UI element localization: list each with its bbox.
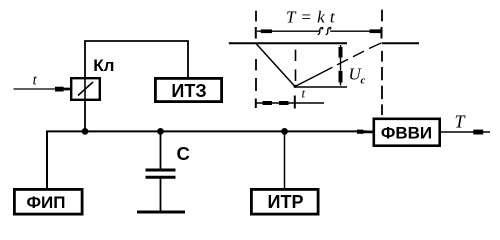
svg-text:Кл: Кл: [93, 56, 114, 75]
svg-text:ИТЗ: ИТЗ: [171, 81, 206, 101]
svg-text:c: c: [361, 75, 366, 87]
svg-text:С: С: [177, 143, 190, 164]
svg-text:ФИП: ФИП: [27, 193, 66, 212]
svg-text:ФВВИ: ФВВИ: [381, 124, 432, 143]
svg-text:ИТР: ИТР: [268, 192, 304, 212]
svg-text:t: t: [302, 86, 306, 101]
svg-text:T = k t: T = k t: [286, 8, 336, 27]
